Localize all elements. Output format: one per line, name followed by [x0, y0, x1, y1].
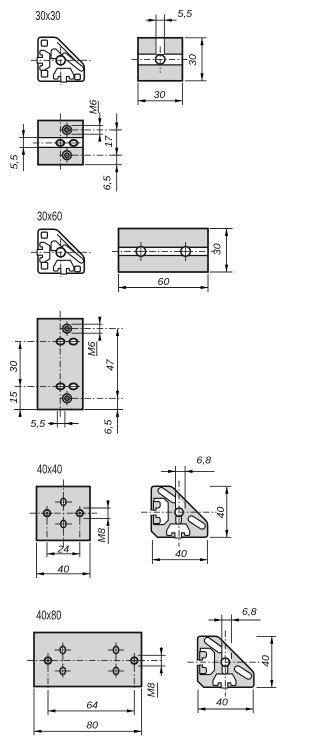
slot holes: [60, 646, 65, 653]
hole crosshairs vertical: [48, 653, 134, 690]
svg-text:5,5: 5,5: [9, 155, 21, 170]
vertical slot band: [156, 39, 163, 54]
PLATE4 : 40x80 mounting face: [27, 633, 166, 736]
left T-slot cavity: [37, 50, 50, 70]
svg-text:M8: M8: [96, 528, 108, 543]
dim 5,5 top: [146, 19, 177, 21]
hole crosshair overlays: [55, 323, 80, 405]
svg-text:M8: M8: [146, 683, 158, 698]
profile body outline: [151, 486, 207, 537]
left T-slot cavity: [150, 498, 168, 524]
hole crosshairs: [66, 322, 68, 406]
svg-text:40: 40: [58, 563, 70, 575]
side hole left: [56, 140, 64, 146]
svg-text:6,5: 6,5: [102, 420, 114, 435]
tapped hole top M6: [63, 324, 72, 333]
body rectangle: [119, 229, 209, 273]
dim M8: [84, 500, 111, 527]
M8 hole left: [45, 657, 52, 664]
hole left: [136, 247, 146, 257]
svg-text:30: 30: [212, 243, 224, 255]
oval crosshairs horizontal: [55, 502, 72, 524]
profile body outline: [38, 37, 84, 81]
M8 hole right: [131, 657, 138, 664]
centreline vertical: [178, 481, 180, 547]
M8 hole left: [44, 510, 51, 517]
dim 30 left: [19, 342, 21, 387]
centreline horizontal: [141, 511, 217, 513]
side holes lower pair: [57, 383, 65, 389]
svg-text:40x40: 40x40: [37, 463, 62, 477]
PLATE3 : 40x40 mounting face: [30, 480, 111, 579]
slot below core hole: [176, 514, 182, 524]
plate centreline vertical: [59, 114, 61, 172]
hole crosshairs: [66, 123, 68, 163]
dim 30 right: [210, 229, 233, 273]
dim 24: [47, 553, 80, 555]
svg-text:40: 40: [215, 507, 227, 519]
dim 30 bottom: [138, 83, 182, 105]
slot hole bottom: [61, 520, 66, 527]
svg-text:5,5: 5,5: [30, 418, 45, 430]
svg-text:80: 80: [86, 720, 98, 732]
dim M8: [138, 647, 166, 676]
dim 17: [112, 114, 121, 156]
dim 40 right: [210, 486, 231, 537]
dim 40: [37, 543, 91, 579]
svg-text:6,8: 6,8: [242, 606, 257, 618]
svg-text:5,5: 5,5: [178, 8, 193, 20]
dim 40 right: [257, 636, 277, 687]
svg-text:M6: M6: [86, 341, 98, 356]
mouth opening: [150, 510, 156, 515]
dim 64: [48, 710, 134, 712]
inner diagonal face line: [57, 42, 81, 66]
dim 6,5: [85, 155, 122, 191]
centreline horizontal: [30, 512, 98, 514]
tapped hole bottom M6: [63, 151, 72, 160]
svg-text:60: 60: [158, 276, 170, 288]
dim 40 bottom: [198, 690, 253, 714]
centre core hole: [56, 56, 65, 65]
svg-text:24: 24: [57, 544, 70, 556]
PROFILE40 second instance: [187, 631, 262, 697]
hole crosshair overlays: [54, 124, 79, 161]
horizontal slot band: [139, 54, 182, 65]
hole right: [181, 247, 191, 257]
centreline horizontal: [31, 59, 93, 61]
side holes upper pair: [57, 339, 65, 345]
oval crosshairs horizontal: [55, 650, 124, 671]
svg-text:6,5: 6,5: [101, 176, 113, 191]
hole crosshairs vertical: [141, 242, 186, 261]
side hole right: [70, 140, 78, 146]
centreline horizontal: [112, 250, 215, 252]
slot band: [119, 247, 207, 255]
svg-text:40x80: 40x80: [36, 609, 61, 623]
svg-text:30: 30: [154, 89, 166, 101]
dim 30 right: [185, 38, 207, 81]
body plate: [34, 633, 142, 687]
svg-text:40: 40: [260, 655, 272, 667]
body plate: [38, 319, 83, 410]
svg-text:30x60: 30x60: [37, 210, 62, 224]
svg-text:40: 40: [216, 697, 228, 709]
BR corner square hole: [75, 74, 81, 80]
core hole: [175, 508, 183, 516]
dim 6,8: [209, 615, 261, 644]
dim 80: [34, 689, 142, 736]
chamber: [154, 498, 168, 524]
svg-text:30: 30: [8, 361, 20, 373]
PROFILE30 : 45-deg profile cross-section, line art: [31, 37, 93, 85]
SIDEVIEW1 : 30x30 mounting face with holes: [9, 100, 123, 192]
centre hole: [156, 55, 165, 64]
hole crosshair overlays: [135, 245, 193, 258]
TL corner square hole: [41, 40, 47, 46]
slot band: [39, 138, 82, 148]
PROFILE40 : 45-deg profile cross-section, grey filled: [141, 481, 217, 547]
dim 6,5: [85, 398, 124, 433]
TOPVIEW1 : 30x30 top face: [132, 8, 207, 105]
body plate: [37, 487, 91, 541]
SIDEVIEW2 : 30x60 mounting face with holes: [8, 311, 123, 434]
centreline vertical: [159, 47, 161, 74]
svg-text:64: 64: [86, 699, 98, 711]
DIMS for profile 40x40: [152, 455, 231, 565]
tapped hole bottom M6: [63, 394, 72, 403]
centreline horizontal: [132, 58, 190, 60]
body plate: [38, 121, 83, 165]
centreline horizontal: [33, 142, 81, 144]
dim 6,8: [161, 466, 215, 504]
dim 40 bottom: [152, 540, 207, 564]
svg-text:6,8: 6,8: [197, 455, 212, 467]
svg-text:30x30: 30x30: [35, 9, 60, 23]
TOPVIEW2 : 30x60 top face: [112, 229, 233, 293]
dim 5,5 bottom: [48, 411, 79, 428]
slot hole top: [61, 498, 66, 505]
body square: [138, 38, 182, 81]
hook top: [153, 502, 160, 511]
dim M6: [72, 113, 104, 142]
bottom T-slot cavity: [54, 68, 74, 82]
M8 hole right: [77, 510, 84, 517]
DIMS for profile 40x80: [198, 606, 276, 713]
dim M6: [72, 317, 103, 341]
face groove channel to core hole: [176, 496, 185, 510]
hole crosshair overlays: [42, 644, 140, 677]
svg-text:M6: M6: [87, 100, 99, 115]
dim 5,5 left: [20, 124, 38, 171]
svg-text:30: 30: [187, 54, 199, 66]
hole crosshair overlays: [41, 496, 86, 530]
svg-text:15: 15: [8, 391, 20, 403]
centreline vertical: [62, 480, 64, 548]
hole crosshairs vertical: [47, 506, 80, 542]
tapped hole top M6: [63, 125, 72, 134]
bottom T-slot cavity: [167, 524, 190, 538]
dim 15 left: [14, 386, 37, 417]
upper-left white pocket: [51, 49, 63, 59]
lower-right diagonal slot: [62, 53, 84, 71]
plate centreline vertical: [59, 311, 61, 417]
BL corner square hole: [41, 70, 47, 77]
TL diagonal slot: [158, 487, 177, 502]
centreline horizontal: [27, 660, 161, 662]
svg-text:47: 47: [104, 358, 116, 371]
svg-text:40: 40: [175, 548, 187, 560]
BR diagonal slot: [188, 516, 205, 529]
svg-text:17: 17: [103, 135, 115, 148]
centreline vertical: [60, 47, 62, 85]
dim 60 bottom: [119, 274, 209, 292]
hook bottom: [153, 515, 160, 524]
dim 47: [117, 329, 119, 399]
